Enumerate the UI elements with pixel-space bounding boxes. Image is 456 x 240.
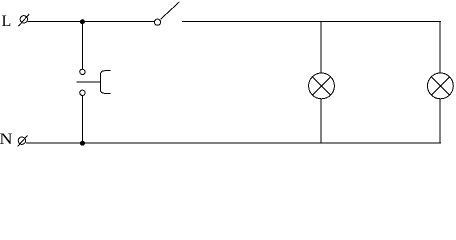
- terminal N (circle with slash): [18, 135, 28, 146]
- push-button SB1 cap: [100, 71, 110, 94]
- svg-text:N: N: [0, 131, 13, 148]
- wire: lamp EL2 bottom lead (right edge): [439, 98, 441, 143]
- push-button SB1 lower contact: [80, 90, 85, 95]
- wire: lamp EL1 bottom lead: [320, 98, 322, 143]
- wire: L terminal to switch S1: [27, 21, 154, 23]
- switch S1 lever (open): [160, 2, 179, 20]
- wire: switch S1 to top-right corner: [182, 21, 441, 23]
- wire: lamp EL2 top lead (right edge): [439, 22, 441, 74]
- push-button SB1 upper contact: [80, 69, 85, 74]
- switch S1 pivot: [154, 19, 160, 25]
- junction node A (top of branch): [80, 19, 85, 24]
- wire: N terminal to bottom-right corner: [26, 142, 441, 144]
- junction node B (bottom of branch): [80, 141, 85, 146]
- lamp EL1: [309, 73, 335, 99]
- push-button SB1 blade: [77, 81, 101, 83]
- terminal L (circle with slash): [18, 14, 29, 26]
- svg-text:L: L: [2, 13, 12, 30]
- lamp EL2: [428, 73, 454, 99]
- wire: lamp EL1 top lead: [320, 22, 322, 74]
- wire: push-button to node B: [81, 96, 83, 144]
- wire: branch down from node A to push-button: [81, 22, 83, 70]
